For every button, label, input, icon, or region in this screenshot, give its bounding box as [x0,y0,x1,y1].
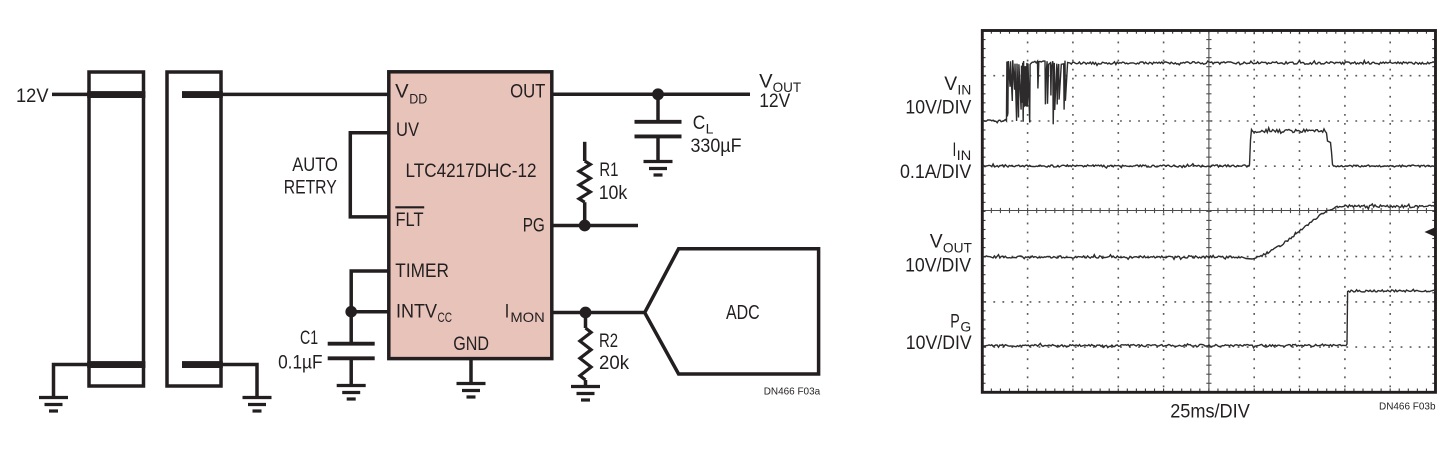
scope frame edge minor ticks [982,31,1435,393]
trace position arrow marker [1425,227,1437,237]
svg-text:FLT: FLT [396,210,424,231]
svg-text:LTC4217DHC-12: LTC4217DHC-12 [406,161,537,182]
wire UV-FLT auto retry loop [350,133,389,217]
resistor R2 [580,328,591,380]
node junction INTVCC C1 [345,306,357,318]
svg-text:I: I [505,302,510,323]
trace PG waveform [982,289,1435,347]
wire INTVCC pin [351,310,389,314]
svg-text:GND: GND [453,334,489,355]
wire TIMER pin [351,271,389,312]
trace VOUT waveform [982,204,1435,259]
svg-text:10V/DIV: 10V/DIV [905,254,971,276]
connector J1 pin bottom thick bar [87,361,145,368]
trace VIN waveform [982,60,1435,124]
node junction IMON R2 [580,307,592,319]
svg-text:V: V [944,73,957,95]
svg-text:OUT: OUT [510,82,546,103]
svg-text:20k: 20k [599,353,629,374]
svg-text:MON: MON [510,309,544,325]
wire IMON net [552,311,645,315]
wire C1 to ground [349,358,353,385]
connector J2 right half [167,72,221,386]
svg-text:DN466 F03b: DN466 F03b [1379,401,1436,413]
svg-text:V: V [930,231,943,253]
connector J1 pin top thick bar [87,91,145,98]
svg-text:DN466 F03a: DN466 F03a [764,385,821,397]
resistor R1 [579,161,590,202]
svg-text:10V/DIV: 10V/DIV [906,332,972,354]
svg-text:UV: UV [396,120,419,141]
connector J2 pin bottom thick bar [182,361,223,368]
capacitor C1 [328,344,375,359]
wire OUT net [552,93,750,97]
svg-text:R1: R1 [599,160,618,181]
IC U1 LTC4217DHC-12 body [389,72,552,359]
svg-text:P: P [950,311,960,333]
scope graticule dotted grid [984,33,1435,393]
svg-text:12V: 12V [16,86,49,107]
scope frame [982,31,1435,393]
scope center horizontal axis with ticks [982,208,1435,213]
svg-text:ADC: ADC [726,302,760,324]
svg-text:CC: CC [438,309,453,325]
svg-text:10k: 10k [599,183,628,204]
ground at connector J2 [243,398,272,412]
svg-text:0.1A/DIV: 0.1A/DIV [900,161,971,183]
svg-text:IN: IN [957,81,971,97]
svg-text:DD: DD [409,91,427,107]
wire OUT to CL [656,94,660,122]
node junction PG R1 [579,220,591,232]
block ADC [645,249,819,374]
wire connector J1 bottom to ground [54,365,90,398]
svg-text:AUTO: AUTO [292,155,338,176]
ground at GND pin [457,384,486,398]
wire connector J2 bottom to ground [221,365,257,398]
svg-text:R2: R2 [599,331,618,352]
svg-text:10V/DIV: 10V/DIV [905,97,971,119]
wire 12V to connector [52,93,89,97]
svg-text:PG: PG [523,216,545,237]
svg-text:0.1µF: 0.1µF [278,352,322,373]
wire CL to ground [656,136,660,161]
wire INTVCC to C1 [349,312,353,344]
wire R1 to PG node [583,202,587,225]
svg-text:INTV: INTV [396,302,437,323]
wire R2 to ground [584,380,588,386]
wire PG net [552,224,638,228]
capacitor CL [635,122,682,137]
svg-text:330µF: 330µF [691,136,742,157]
ground at CL [644,162,673,176]
connector J2 pin top thick bar [182,91,223,98]
svg-text:TIMER: TIMER [395,261,449,282]
svg-text:C1: C1 [300,328,318,349]
ground at connector J1 [39,398,68,412]
connector J1 left half [89,72,144,386]
svg-text:V: V [395,82,409,103]
ground at R2 [571,387,600,401]
wire IMON to R2 [584,313,588,329]
wire VDD net connector to IC [221,93,390,97]
svg-text:RETRY: RETRY [284,178,337,199]
svg-text:12V: 12V [759,91,790,112]
svg-text:L: L [706,121,714,137]
trace IIN waveform [982,128,1435,168]
wire GND pin to ground [469,359,473,383]
svg-text:V: V [759,72,773,93]
resistor R1 stub wire [583,142,587,161]
ground at C1 [337,386,366,400]
node junction OUT CL [652,88,664,100]
overline for FLT [395,206,424,208]
scope center vertical axis with ticks [1206,31,1211,393]
svg-text:C: C [693,113,706,134]
svg-text:OUT: OUT [943,240,972,256]
svg-text:25ms/DIV: 25ms/DIV [1170,401,1250,423]
